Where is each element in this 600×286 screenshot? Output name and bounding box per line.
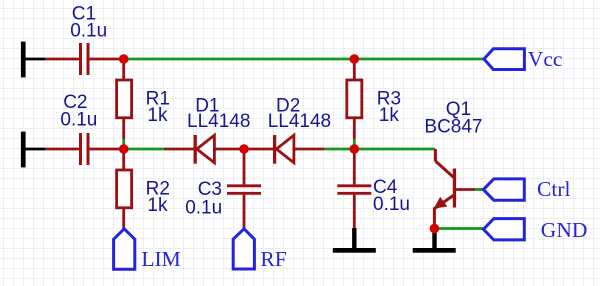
wire base to Ctrl — [475, 188, 483, 191]
capacitor C2 — [60, 92, 97, 165]
resistor R2 — [117, 149, 170, 229]
wire — [90, 58, 124, 61]
port RF — [233, 229, 287, 271]
svg-text:1k: 1k — [147, 105, 168, 126]
wire — [45, 148, 79, 151]
svg-text:GND: GND — [541, 218, 588, 242]
port GND — [483, 218, 587, 242]
wire net row1 — [124, 58, 484, 61]
node junction D1/D2/C3 — [239, 144, 249, 154]
terminal top-left — [21, 42, 26, 78]
svg-text:BC847: BC847 — [424, 117, 482, 138]
diode D1 — [164, 96, 250, 164]
svg-text:0.1u: 0.1u — [185, 197, 222, 218]
node junction R3/C4/Q1 — [350, 144, 360, 154]
wire net row2 left — [124, 148, 164, 151]
wire — [25, 58, 45, 61]
wire — [25, 148, 45, 151]
transistor Q1 — [424, 99, 482, 228]
svg-text:Vcc: Vcc — [528, 47, 563, 71]
wire net row2 right — [324, 148, 435, 151]
diode D2 — [244, 96, 331, 164]
wire — [90, 148, 124, 151]
resistor R3 — [347, 59, 401, 149]
port Vcc — [484, 47, 562, 71]
node junction emitter/GND — [430, 224, 440, 234]
wire — [45, 58, 79, 61]
capacitor C4 — [337, 149, 410, 228]
capacitor C3 — [185, 149, 261, 229]
node junction Vcc/R3 — [350, 54, 360, 64]
port LIM — [114, 229, 181, 271]
ground under C4 — [333, 228, 376, 253]
capacitor C1 — [70, 3, 107, 75]
node junction C2/R1/R2 — [119, 144, 129, 154]
port Ctrl — [483, 177, 570, 201]
wire emitter to GND — [435, 227, 483, 230]
svg-text:1k: 1k — [147, 195, 168, 216]
ground under Q1 — [413, 229, 456, 253]
node junction C1/R1 — [119, 54, 129, 64]
svg-text:Ctrl: Ctrl — [537, 177, 570, 201]
svg-text:0.1u: 0.1u — [373, 194, 410, 215]
svg-text:1k: 1k — [379, 105, 400, 126]
svg-text:RF: RF — [260, 247, 286, 271]
svg-text:LIM: LIM — [141, 247, 180, 271]
svg-text:LL4148: LL4148 — [268, 111, 331, 132]
resistor R1 — [117, 59, 170, 149]
svg-text:0.1u: 0.1u — [60, 109, 97, 130]
terminal bottom-left — [21, 132, 26, 168]
svg-text:LL4148: LL4148 — [187, 111, 250, 132]
svg-text:0.1u: 0.1u — [70, 21, 107, 42]
